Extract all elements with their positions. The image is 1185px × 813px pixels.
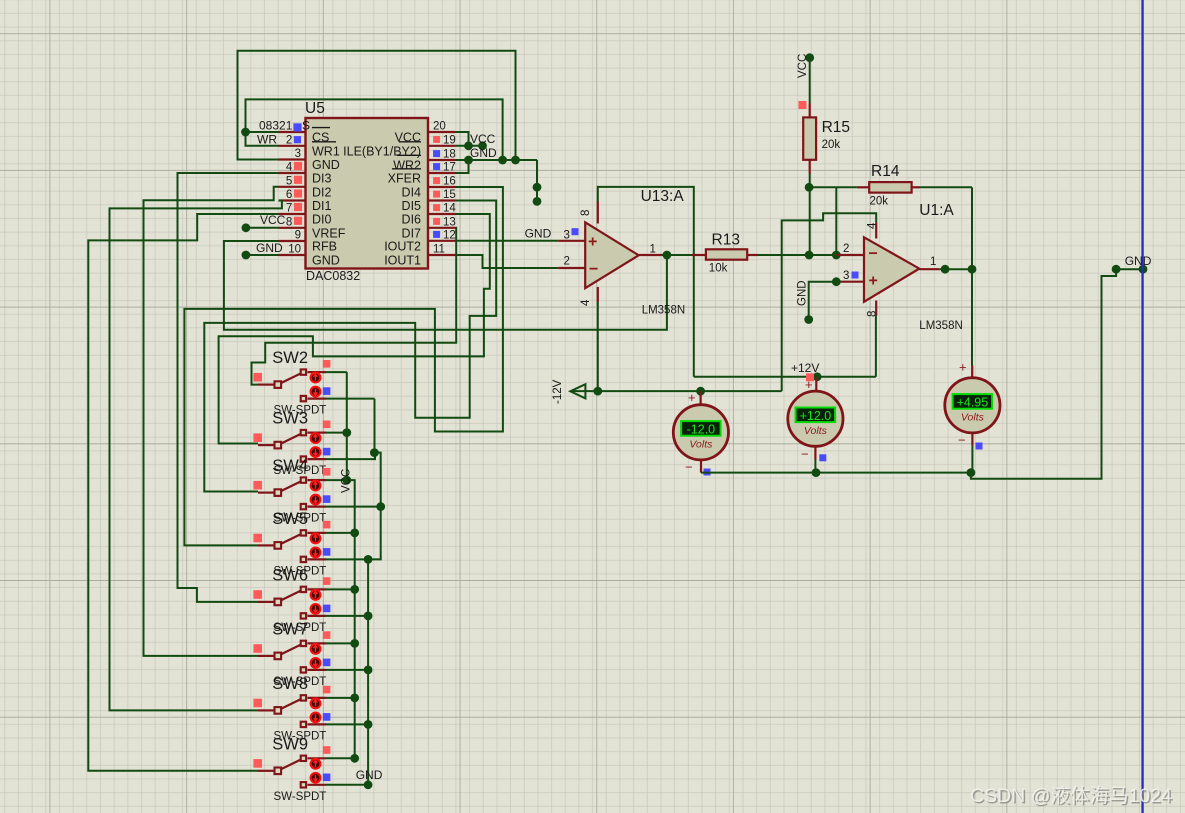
R13 value 10k xyxy=(709,263,728,275)
svg-text:6: 6 xyxy=(286,189,292,201)
switch SW4 SW-SPDT xyxy=(253,468,330,509)
svg-text:9: 9 xyxy=(295,230,301,242)
SW7 value label SW-SPDT xyxy=(274,676,327,688)
switch SW3 SW-SPDT xyxy=(253,421,330,462)
svg-text:7: 7 xyxy=(286,203,292,215)
svg-text:−: − xyxy=(958,433,966,448)
wire SW2 bottom throw to GND bus xyxy=(326,398,375,400)
watermark CSDN xyxy=(970,785,1174,809)
svg-text:1: 1 xyxy=(930,256,936,268)
svg-text:WR: WR xyxy=(257,132,277,146)
U1 pin4 stub xyxy=(866,222,878,239)
SW5 reference label xyxy=(272,510,308,528)
svg-text:VREF: VREF xyxy=(312,226,346,240)
svg-text:VCC: VCC xyxy=(260,213,286,227)
svg-text:S: S xyxy=(302,119,310,133)
R13 reference label xyxy=(712,232,740,249)
U5 reference label xyxy=(305,100,325,117)
svg-text:U13:A: U13:A xyxy=(641,188,685,205)
svg-text:SW4: SW4 xyxy=(272,457,308,475)
wire SW3 top throw to VCC bus xyxy=(326,428,351,437)
svg-text:DI2: DI2 xyxy=(312,185,332,199)
svg-text:GND: GND xyxy=(356,768,383,782)
U13 output stub pin 1 xyxy=(639,244,672,260)
SW2 value label SW-SPDT xyxy=(274,405,327,417)
svg-text:XFER: XFER xyxy=(388,172,421,186)
svg-text:DI4: DI4 xyxy=(402,186,422,200)
svg-text:12: 12 xyxy=(443,229,456,241)
SW7 reference label xyxy=(272,620,308,638)
SW9 value label SW-SPDT xyxy=(274,791,327,803)
U5 value label DAC0832 xyxy=(306,269,360,283)
svg-text:WR1: WR1 xyxy=(312,144,340,158)
svg-text:WR2: WR2 xyxy=(393,159,421,173)
wire -12V rail xyxy=(571,387,782,396)
svg-text:15: 15 xyxy=(443,189,456,201)
svg-text:DI6: DI6 xyxy=(402,213,422,227)
power terminal -12V arrow xyxy=(552,379,585,404)
SW6 value label SW-SPDT xyxy=(274,622,327,634)
switch SW5 SW-SPDT xyxy=(253,521,330,562)
U1 pin2 stub xyxy=(836,243,864,255)
U5 right pin stubs pins 11-20 xyxy=(428,132,455,255)
power terminal VCC above R15 xyxy=(797,53,814,78)
op-amp U13:A body xyxy=(585,222,639,288)
net label 0832CS at pin 1 xyxy=(259,119,310,133)
U1:A value LM358N xyxy=(919,320,962,332)
svg-text:SW-SPDT: SW-SPDT xyxy=(274,791,327,803)
U5 left pin names xyxy=(312,128,346,268)
wire net DI0 pin7 to SW9 pole xyxy=(88,214,278,771)
wire pin19 ILE VCC terminal xyxy=(455,141,487,150)
svg-text:Volts: Volts xyxy=(804,425,828,437)
U5 right pin numbers xyxy=(433,121,456,256)
U13 pin8 V+ stub xyxy=(580,202,598,224)
svg-text:DAC0832: DAC0832 xyxy=(306,269,360,283)
wire SW7 bottom throw to GND bus xyxy=(326,666,373,675)
wire U1 pin8 to +12V net xyxy=(875,316,877,377)
R15 value 20k xyxy=(822,139,841,151)
wire -12V rail to U1 pin4 xyxy=(782,213,877,391)
svg-text:+: + xyxy=(959,360,967,375)
svg-text:-12.0: -12.0 xyxy=(687,423,716,437)
svg-text:GND: GND xyxy=(312,254,340,268)
U5 pin state squares xyxy=(293,123,440,238)
wire R14 left leg down to inverting node xyxy=(835,187,837,255)
R15 reference label xyxy=(822,119,850,136)
svg-text:1: 1 xyxy=(286,121,292,133)
wire R15 bottom to U1 inverting node xyxy=(805,174,814,256)
wire SW3 bottom throw to GND bus xyxy=(326,448,379,459)
sheet border blue line xyxy=(1141,0,1143,813)
net label +12V xyxy=(791,361,819,381)
net label VCC right of pin19 xyxy=(470,132,496,146)
svg-text:GND: GND xyxy=(312,158,340,172)
svg-text:SW5: SW5 xyxy=(272,510,308,528)
svg-text:SW7: SW7 xyxy=(272,620,308,638)
svg-text:IOUT2: IOUT2 xyxy=(384,239,421,253)
SW8 reference label xyxy=(272,675,308,693)
svg-text:16: 16 xyxy=(443,176,456,188)
R14 reference label xyxy=(871,163,900,180)
svg-text:1: 1 xyxy=(650,244,656,256)
resistor R13 xyxy=(662,249,758,259)
U13 pin3 number and state square xyxy=(564,228,579,241)
svg-text:DI1: DI1 xyxy=(312,199,332,213)
wire VCC bus vertical xyxy=(347,372,355,758)
svg-text:+4.95: +4.95 xyxy=(957,396,989,410)
wire SW8 top throw to VCC bus xyxy=(326,694,359,703)
svg-text:VCC: VCC xyxy=(341,469,353,493)
svg-text:4: 4 xyxy=(286,162,293,174)
svg-text:+12V: +12V xyxy=(791,361,819,375)
svg-text:11: 11 xyxy=(433,244,445,256)
svg-text:LM358N: LM358N xyxy=(642,305,685,317)
svg-text:LM358N: LM358N xyxy=(919,320,962,332)
svg-text:IOUT1: IOUT1 xyxy=(384,254,421,268)
wire outer top loop pin3 to WR2 net xyxy=(238,51,516,160)
U5 left pin stubs pins 1-10 xyxy=(279,132,306,255)
wire SW5 top throw to VCC bus xyxy=(326,529,359,538)
svg-text:CSDN @液体海马1024: CSDN @液体海马1024 xyxy=(970,785,1172,807)
svg-text:4: 4 xyxy=(866,222,878,229)
svg-text:−: − xyxy=(801,447,809,462)
resistor R14 xyxy=(809,182,920,193)
svg-text:20: 20 xyxy=(433,121,446,133)
svg-text:R14: R14 xyxy=(871,163,900,180)
svg-text:U1:A: U1:A xyxy=(919,202,954,219)
svg-text:SW8: SW8 xyxy=(272,675,308,693)
voltmeter VM3 +4.95 Volts xyxy=(945,269,1000,472)
switch SW7 SW-SPDT xyxy=(253,631,330,672)
wire U1 output to R14/meter node xyxy=(940,268,972,270)
switch SW2 SW-SPDT xyxy=(253,360,330,401)
resistor R15 xyxy=(799,58,817,174)
wire net DI2 pin5 to SW7 pole xyxy=(144,187,279,656)
svg-text:18: 18 xyxy=(443,149,456,161)
svg-text:+12.0: +12.0 xyxy=(800,409,832,423)
wire net DI3 pin4 to SW6 pole xyxy=(178,173,279,602)
svg-text:DI5: DI5 xyxy=(402,199,422,213)
ground terminal GND at U1 output net xyxy=(1112,254,1152,274)
svg-text:4: 4 xyxy=(580,299,592,306)
svg-text:GND: GND xyxy=(797,280,809,306)
wire R13 to U1 inverting input xyxy=(758,251,841,260)
wire SW9 bottom throw to GND bus xyxy=(326,780,373,789)
wire R14 right to U1 output node xyxy=(920,187,976,273)
svg-text:SW2: SW2 xyxy=(272,349,308,367)
svg-text:-12V: -12V xyxy=(552,379,564,404)
wire pin18 WR2 row with terminal stub xyxy=(455,156,541,206)
svg-text:10: 10 xyxy=(288,244,301,256)
U5 left pin numbers xyxy=(286,121,301,256)
net label VCC on switch bus xyxy=(341,469,353,493)
wire net DI5 pin15 to SW4 pole xyxy=(204,201,496,492)
svg-text:8: 8 xyxy=(286,216,292,228)
SW3 reference label xyxy=(272,410,308,428)
wire net RFB pin9 to output node xyxy=(224,241,667,330)
svg-text:SW9: SW9 xyxy=(272,735,308,753)
svg-text:+: + xyxy=(869,273,878,290)
svg-text:−: − xyxy=(869,246,878,263)
svg-text:SW6: SW6 xyxy=(272,566,308,584)
svg-text:20k: 20k xyxy=(870,196,889,208)
switch SW8 SW-SPDT xyxy=(253,686,330,727)
wire SW5 bottom throw to GND bus xyxy=(326,555,373,564)
svg-text:DI3: DI3 xyxy=(312,172,332,186)
svg-text:17: 17 xyxy=(443,162,456,174)
SW4 reference label xyxy=(272,457,308,475)
wire SW6 top throw to VCC bus xyxy=(326,585,359,594)
wire pin17 XFER to WR2 net xyxy=(455,160,469,173)
svg-text:+: + xyxy=(688,390,696,405)
SW9 reference label xyxy=(272,735,308,753)
wire SW6 bottom throw to GND bus xyxy=(326,612,373,621)
svg-text:2: 2 xyxy=(564,256,570,268)
U1:A reference label xyxy=(919,202,954,219)
svg-text:VCC: VCC xyxy=(797,54,809,78)
wire SW7 top throw to VCC bus xyxy=(326,639,359,648)
R14 value 20k xyxy=(870,196,889,208)
svg-text:14: 14 xyxy=(443,203,456,215)
svg-text:GND: GND xyxy=(470,146,497,160)
ground terminal GND at pin 10 xyxy=(242,241,284,259)
SW4 value label SW-SPDT xyxy=(274,513,327,525)
svg-text:GND: GND xyxy=(1125,254,1152,268)
svg-text:DI7: DI7 xyxy=(402,226,422,240)
U1 pin3 stub xyxy=(832,270,864,286)
switch SW6 SW-SPDT xyxy=(253,577,330,618)
U13 pin2 number xyxy=(564,256,570,268)
svg-text:R13: R13 xyxy=(712,232,740,249)
svg-text:3: 3 xyxy=(843,270,849,282)
svg-text:0832: 0832 xyxy=(259,119,286,133)
U13 pin4 V- stub xyxy=(580,287,598,306)
wire net DI7 pin13 to SW2 pole xyxy=(252,228,457,385)
svg-text:ILE(BY1/BY2): ILE(BY1/BY2) xyxy=(343,144,421,158)
svg-text:−: − xyxy=(589,261,598,278)
U13:A reference label xyxy=(641,188,685,205)
svg-text:DI0: DI0 xyxy=(312,213,332,227)
wire +12V net horizontal xyxy=(694,372,876,381)
wire SW9 top throw to VCC bus xyxy=(326,754,359,763)
wire U1 pin3 to GND terminal xyxy=(797,280,837,323)
svg-text:2: 2 xyxy=(843,243,849,255)
svg-text:2: 2 xyxy=(286,134,292,146)
wire SW2 top throw to VCC bus xyxy=(326,371,347,373)
net label GND on U13 pin3 wire xyxy=(525,227,552,241)
svg-text:GND: GND xyxy=(256,241,283,255)
SW6 reference label xyxy=(272,566,308,584)
wire pin11 IOUT1 to U13 inverting input xyxy=(455,255,558,268)
power terminal VCC at pin 8 VREF xyxy=(242,213,286,232)
U1 pin8 stub xyxy=(866,301,878,318)
wire meter ground rail xyxy=(701,269,1116,479)
wire net DI4 pin16 to SW5 pole xyxy=(184,187,503,545)
svg-text:R15: R15 xyxy=(822,119,850,136)
net label WR at pin 2 xyxy=(257,132,277,146)
wire net DI1 pin6 to SW8 pole xyxy=(110,201,282,711)
wire GND bus vertical xyxy=(368,399,381,785)
svg-text:GND: GND xyxy=(525,227,552,241)
wire SW4 bottom throw to GND bus xyxy=(326,502,385,511)
wire SW8 bottom throw to GND bus xyxy=(326,720,373,729)
U13 input pin stubs xyxy=(558,241,585,268)
voltmeter VM1 -12.0 Volts xyxy=(673,390,728,476)
U1 output stub pin 1 xyxy=(919,256,949,274)
svg-text:10k: 10k xyxy=(709,263,728,275)
SW8 value label SW-SPDT xyxy=(274,730,327,742)
SW3 value label SW-SPDT xyxy=(274,465,327,477)
op-amp U1:A body xyxy=(864,237,919,301)
net label GND right of pin18 xyxy=(470,146,497,160)
svg-text:+: + xyxy=(588,234,597,251)
U5 right pin names xyxy=(343,131,421,268)
svg-text:8: 8 xyxy=(580,210,592,216)
wire net DI6 pin14 to SW3 pole xyxy=(219,214,490,444)
SW2 reference label xyxy=(272,349,308,367)
wire U13 pin8 to +12V loop xyxy=(598,187,694,377)
wire SW4 top throw to VCC bus xyxy=(326,476,351,485)
svg-text:Volts: Volts xyxy=(689,439,713,451)
switch SW9 SW-SPDT xyxy=(253,746,330,787)
IC U5 DAC0832 body xyxy=(306,118,429,269)
net label GND at switch bus bottom xyxy=(356,768,383,782)
SW5 value label SW-SPDT xyxy=(274,565,327,577)
svg-text:5: 5 xyxy=(286,175,292,187)
svg-text:19: 19 xyxy=(443,134,456,146)
svg-text:RFB: RFB xyxy=(312,240,337,254)
svg-text:+: + xyxy=(805,377,813,392)
U13:A value LM358N xyxy=(642,305,685,317)
svg-text:20k: 20k xyxy=(822,139,841,151)
svg-text:−: − xyxy=(685,460,693,475)
svg-text:VCC: VCC xyxy=(470,132,496,146)
wire U13 pin4 to -12V rail xyxy=(593,302,602,396)
svg-text:U5: U5 xyxy=(305,100,325,117)
svg-text:3: 3 xyxy=(295,148,301,160)
voltmeter VM2 +12.0 Volts xyxy=(788,377,843,473)
wire inner top loop pin1/pin2 to WR2 net xyxy=(241,99,503,160)
svg-text:Volts: Volts xyxy=(961,412,985,424)
wire pin20 VCC to pin19 xyxy=(455,132,469,146)
svg-text:13: 13 xyxy=(443,216,456,228)
wire pin12 IOUT2 to U13 noninverting input xyxy=(455,240,558,242)
svg-text:SW3: SW3 xyxy=(272,410,308,428)
